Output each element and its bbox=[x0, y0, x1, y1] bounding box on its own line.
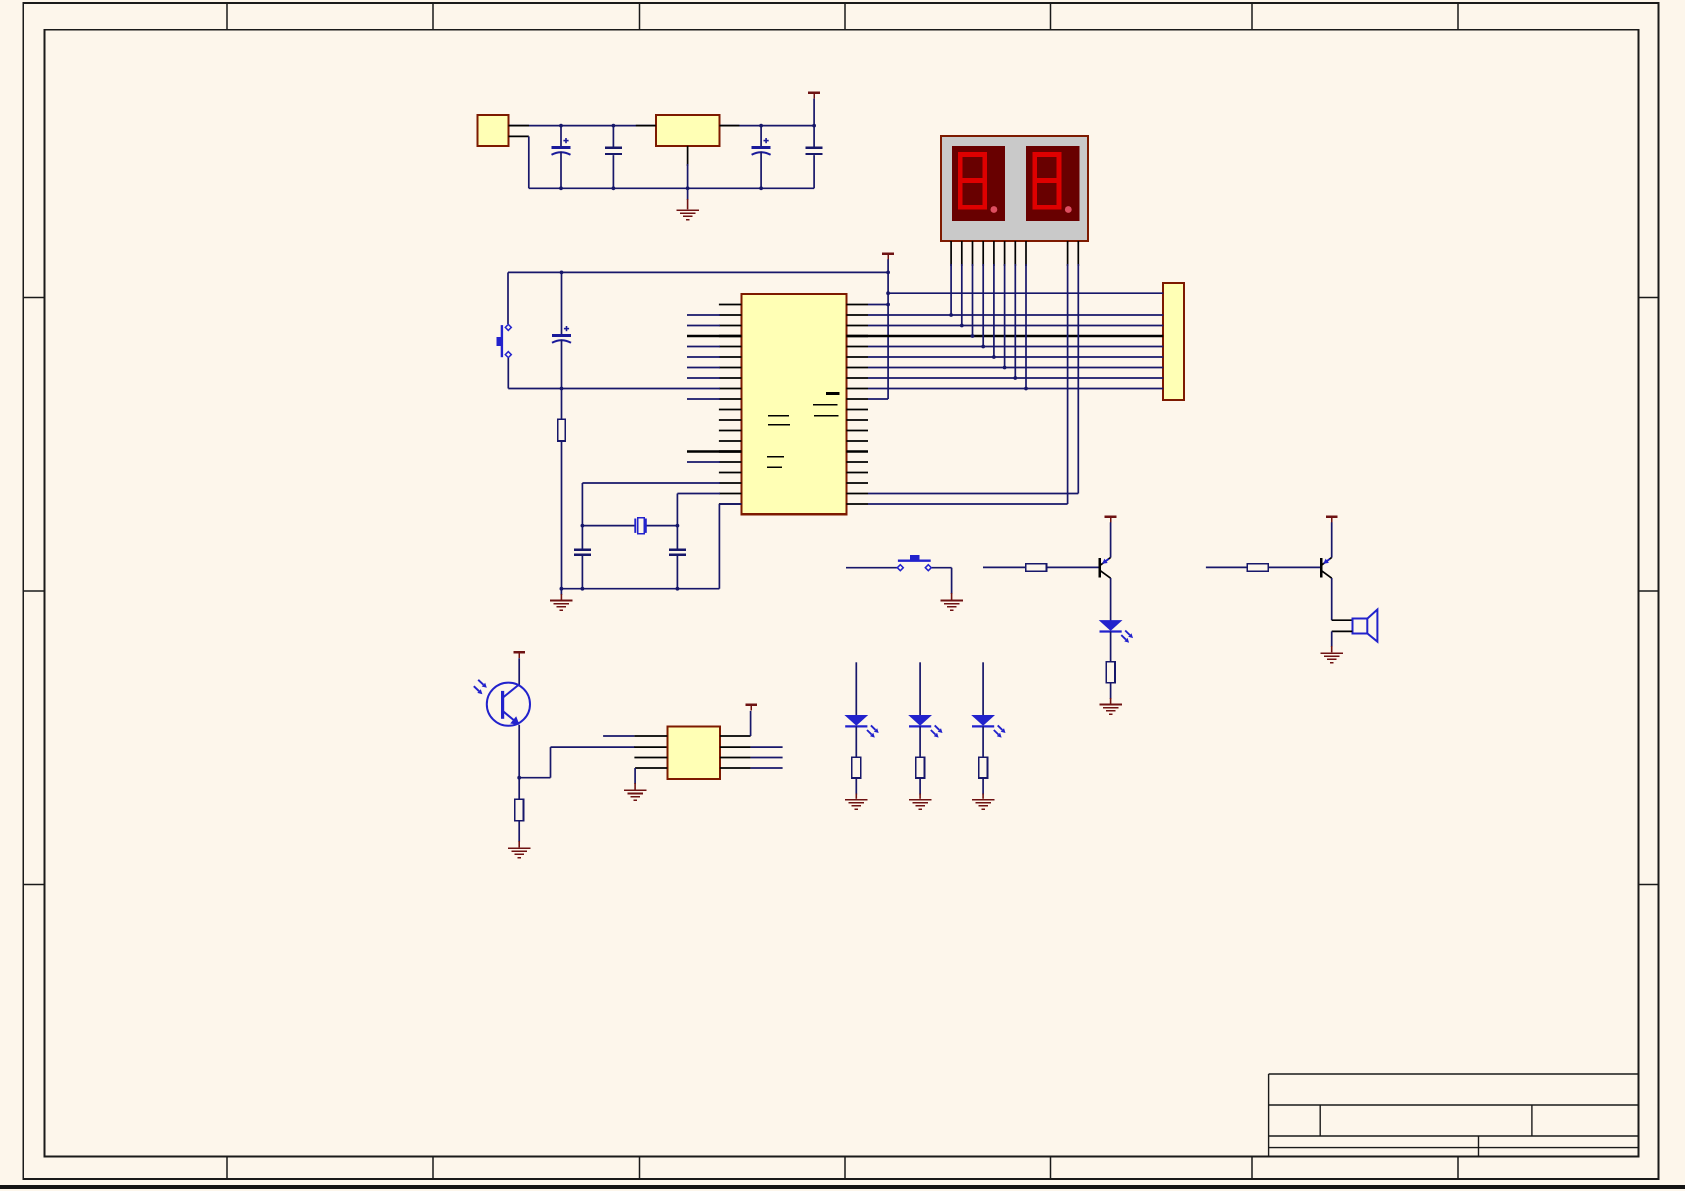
LED D3 bbox=[908, 715, 932, 726]
wire R4 to Q2 base bbox=[1269, 566, 1320, 568]
VCC power bar (Q2) bbox=[1326, 515, 1338, 518]
title block bbox=[1269, 1074, 1639, 1157]
capacitor C2 bbox=[612, 126, 614, 147]
speaker LS1 bbox=[1352, 610, 1377, 642]
wire R5 to ground bbox=[518, 821, 520, 842]
LED D1 bbox=[1099, 620, 1123, 631]
connector J2 bbox=[1163, 283, 1184, 400]
U3 pin 1 wire (left) bbox=[603, 735, 634, 737]
resistor R6 bbox=[852, 757, 861, 778]
reset VCC rail bbox=[508, 271, 888, 273]
junction dot Q3 emitter bbox=[517, 776, 521, 780]
display common wire digit1 bbox=[1067, 264, 1069, 504]
wire U1 pin1 to VCC vertical bbox=[868, 304, 888, 306]
wire VCC to J2 pin1 bbox=[888, 292, 1163, 294]
push button S2 bbox=[897, 555, 931, 571]
ground (U3) bbox=[624, 790, 646, 792]
transistor Q2 bbox=[1320, 558, 1322, 577]
ground (button S2) bbox=[940, 600, 962, 602]
resistor R5 bbox=[518, 778, 520, 800]
capacitor C5 (reset, electrolytic) bbox=[561, 272, 563, 334]
junction dots on VCC vertical bbox=[886, 271, 890, 275]
wire U1 EA pin to VCC vertical bbox=[868, 398, 888, 400]
LED D4 bbox=[971, 715, 995, 726]
U1 left pin stubs bbox=[719, 305, 742, 505]
wire to R4 bbox=[1206, 566, 1247, 568]
wire D3 to R7 bbox=[919, 726, 921, 757]
ground (phototransistor) bbox=[508, 847, 530, 849]
voltage regulator U2 bbox=[656, 115, 720, 146]
wire D4 to R8 bbox=[982, 726, 984, 757]
crystal X1 bbox=[582, 518, 677, 534]
U3 right pin wires bbox=[720, 746, 751, 748]
dual 7-segment display DS1 bbox=[941, 136, 1088, 241]
junction dot regulator gnd bbox=[686, 186, 690, 190]
wire R8 to ground bbox=[982, 778, 984, 795]
wire VCC to top rail bbox=[813, 99, 815, 126]
junction dots C6 bbox=[581, 524, 585, 528]
wire rail down to reset button bbox=[507, 272, 509, 324]
junction dots C2 bbox=[612, 124, 616, 128]
capacitor C1 (electrolytic) bbox=[560, 126, 562, 147]
wire Q2 collector to speaker bbox=[1331, 578, 1333, 620]
junction dot top rail right bbox=[812, 124, 816, 128]
resistor R2 (base) bbox=[1026, 564, 1047, 572]
VCC power bar (power section) bbox=[808, 92, 820, 95]
wire R6 to ground bbox=[855, 778, 857, 795]
U3 pin 4 wire to ground bbox=[635, 767, 667, 769]
U1 right pin stubs bbox=[846, 305, 868, 505]
wire to button S2 bbox=[846, 567, 897, 569]
connector J1 (power input) bbox=[478, 115, 509, 146]
ground (speaker) bbox=[1321, 652, 1343, 654]
wire VCC to Q3 collector bbox=[518, 658, 520, 685]
crystal ground bus bbox=[561, 588, 719, 590]
ground below regulator bbox=[687, 188, 689, 200]
ground (crystal/reset) bbox=[560, 589, 562, 595]
wire XTAL2 bbox=[676, 494, 678, 526]
push button S1 (reset) bbox=[497, 324, 512, 357]
wire to R2 bbox=[983, 566, 1026, 568]
VCC power bar (Q1) bbox=[1105, 515, 1117, 518]
resistor R8 bbox=[979, 757, 988, 778]
wire R3 to ground bbox=[1110, 683, 1112, 699]
resistor R7 bbox=[916, 757, 925, 778]
VCC power bar (phototransistor) bbox=[513, 651, 525, 654]
regulator input/output pin stubs bbox=[636, 125, 656, 127]
resistor R4 (base) bbox=[1247, 564, 1268, 572]
bottom screenshot edge strip bbox=[0, 1185, 1685, 1189]
wire Q1 collector to LED D1 bbox=[1110, 578, 1112, 621]
wire VCC to Q1 emitter bbox=[1110, 522, 1112, 557]
ground (LED D4) bbox=[972, 799, 994, 801]
display segment wires with junctions bbox=[949, 264, 1028, 390]
wire S1 to RST pin bbox=[507, 358, 509, 389]
junction dots C3 bbox=[759, 124, 763, 128]
U1 internal pin-name marks bbox=[767, 392, 840, 468]
wire R2 to Q1 base bbox=[1046, 566, 1098, 568]
ground (LED D3) bbox=[909, 799, 931, 801]
junction dots C5 bbox=[560, 271, 564, 275]
wire S2 to ground bbox=[932, 567, 952, 569]
U1 left unconnected wires bbox=[687, 315, 741, 462]
LED D2 bbox=[844, 715, 868, 726]
wire to LED D2 bbox=[855, 662, 857, 715]
transistor Q1 bbox=[1099, 558, 1101, 577]
wire D2 to R6 bbox=[855, 726, 857, 757]
junction dots C7 bbox=[676, 524, 680, 528]
display common wire digit2 bbox=[1077, 264, 1079, 494]
wire to LED D3 bbox=[919, 662, 921, 715]
capacitor C7 bbox=[676, 526, 678, 549]
wire XTAL1 bbox=[581, 483, 583, 526]
IC U3 bbox=[667, 727, 720, 779]
capacitor C4 bbox=[813, 126, 815, 147]
ground (Q1 LED) bbox=[1099, 704, 1121, 706]
wire speaker to ground bbox=[1332, 630, 1353, 632]
ground (LED D2) bbox=[845, 799, 867, 801]
wire J1 pin1 to top rail bbox=[509, 125, 815, 127]
U3 right pin to VCC bbox=[720, 735, 751, 737]
wire GND pin via bus bbox=[718, 504, 720, 589]
wire J1 pin2 down to bottom rail bbox=[509, 135, 529, 137]
wire Q3 to U3 input bbox=[519, 777, 550, 779]
resistor R1 (reset pulldown) bbox=[561, 389, 563, 420]
capacitor C6 bbox=[581, 526, 583, 549]
wire Q3 emitter down bbox=[518, 725, 520, 778]
microcontroller U1 bbox=[741, 294, 846, 514]
wire R7 to ground bbox=[919, 778, 921, 795]
regulator ground pin wire bbox=[687, 146, 689, 166]
wire VCC to Q2 emitter bbox=[1331, 522, 1333, 557]
resistor R3 bbox=[1106, 662, 1115, 683]
wire D1 to R3 bbox=[1110, 632, 1112, 662]
U3 pin 3 stub (left) bbox=[634, 757, 667, 759]
VCC power bar (logic) bbox=[882, 252, 894, 255]
junction dot gnd bus bbox=[560, 587, 564, 591]
VCC vertical wire bbox=[887, 259, 889, 399]
VCC power bar (U3) bbox=[745, 704, 757, 707]
data bus wires U1 to J2 bbox=[846, 315, 1163, 389]
junction dots C1 bbox=[559, 124, 563, 128]
display segment pins bbox=[951, 241, 1078, 266]
phototransistor Q3 bbox=[474, 680, 530, 726]
capacitor C3 (electrolytic) bbox=[760, 126, 762, 147]
wire to LED D4 bbox=[982, 662, 984, 715]
